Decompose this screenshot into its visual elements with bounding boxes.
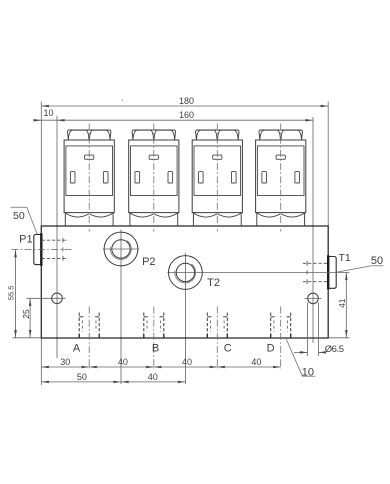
svg-text:10: 10 xyxy=(43,108,53,118)
svg-text:40: 40 xyxy=(118,357,128,367)
stray scan speck xyxy=(122,100,123,101)
svg-text:40: 40 xyxy=(182,357,192,367)
centerline of port A xyxy=(88,307,90,370)
centerline of valve V1 xyxy=(88,124,90,232)
centerline of valve V4 xyxy=(280,124,282,232)
svg-text:41: 41 xyxy=(337,298,347,308)
extension line bottom edge extended right xyxy=(328,337,349,339)
svg-text:40: 40 xyxy=(251,357,261,367)
extension line left edge (bottom) xyxy=(40,338,42,385)
svg-text:Ø6.5: Ø6.5 xyxy=(325,344,344,355)
extension/centerline x=313 through right mounting hole xyxy=(312,117,314,343)
svg-text:T1: T1 xyxy=(338,252,350,264)
svg-text:50: 50 xyxy=(371,255,383,267)
dimension 41 (right) xyxy=(337,273,348,338)
hidden port C (dashed hole, bottom face) xyxy=(207,313,227,338)
extension line right edge (top, x=328.2) xyxy=(327,102,329,227)
centerline of valve V2 xyxy=(153,124,155,232)
solenoid valve V1 xyxy=(64,130,114,226)
svg-text:30: 30 xyxy=(60,357,70,367)
leader and label 50 (T1 thread) xyxy=(336,255,383,272)
extension line left edge (top, x=41.3) xyxy=(40,102,42,227)
hidden hole of port P1 (dashed) xyxy=(42,238,68,261)
centerline of port P2 (vertical) xyxy=(120,230,122,385)
svg-text:B: B xyxy=(152,342,159,354)
hidden port A (dashed hole, bottom face) xyxy=(79,313,99,338)
dimension Ø6.5 (right mounting hole) xyxy=(294,303,344,357)
centerline of port B xyxy=(153,307,155,370)
dimension 55.5 (left) xyxy=(7,250,17,338)
hidden port B (dashed hole, bottom face) xyxy=(144,313,164,338)
leader and label 50 (P1 thread) xyxy=(11,207,38,234)
centerline of port T2 (vertical) xyxy=(184,253,186,384)
svg-text:P1: P1 xyxy=(19,234,32,246)
dimension 25 (left) xyxy=(21,298,31,337)
svg-text:D: D xyxy=(267,342,275,354)
manifold body block outline xyxy=(41,226,328,338)
common centerline of ports T2 and T1 (horizontal) xyxy=(167,271,349,273)
centerline of port D xyxy=(280,307,282,370)
svg-text:A: A xyxy=(73,342,81,354)
svg-text:50: 50 xyxy=(13,210,25,222)
svg-text:180: 180 xyxy=(179,96,194,106)
crosshair/extension through left mounting hole (25 dim) xyxy=(27,297,66,299)
svg-text:50: 50 xyxy=(77,372,87,382)
centerline of valve V3 xyxy=(216,124,218,232)
port P2 (top face, counterbored threaded hole) xyxy=(103,232,139,266)
svg-text:10: 10 xyxy=(302,366,314,378)
dimensions 10 and 160 (second row) xyxy=(33,108,313,122)
solenoid valve V3 xyxy=(192,130,242,226)
mounting hole right (Ø6.5) xyxy=(305,293,322,304)
solenoid valve V2 xyxy=(129,130,179,226)
hidden port D (dashed hole, bottom face) xyxy=(271,313,291,338)
svg-text:160: 160 xyxy=(179,110,194,120)
port T2 (top face, counterbored threaded hole) xyxy=(169,256,203,290)
svg-text:55.5: 55.5 xyxy=(7,286,16,301)
svg-text:C: C xyxy=(224,342,232,354)
dimension row 30/40/40/40 (bottom) xyxy=(41,357,280,368)
mounting hole left (Ø6.5) xyxy=(52,293,63,304)
port T1 fitting (right side) xyxy=(328,255,336,289)
svg-text:T2: T2 xyxy=(207,277,220,289)
svg-text:P2: P2 xyxy=(142,256,155,268)
dimension row 50/40 (bottom) xyxy=(41,372,185,383)
port P1 fitting (left side) xyxy=(34,233,42,266)
hidden hole of port T1 (dashed) xyxy=(303,261,328,284)
leader and label 10 (port depth) xyxy=(286,338,316,379)
centerline of port C xyxy=(216,307,218,370)
extension line bottom edge extended left xyxy=(13,337,42,339)
solenoid valve V4 xyxy=(256,130,306,226)
centerline of port P1 (horizontal) xyxy=(12,248,74,250)
dimension 180 (top) xyxy=(41,96,328,107)
svg-text:25: 25 xyxy=(21,309,31,319)
svg-text:40: 40 xyxy=(148,372,158,382)
extension/centerline x=57 through left mounting hole xyxy=(56,116,58,359)
